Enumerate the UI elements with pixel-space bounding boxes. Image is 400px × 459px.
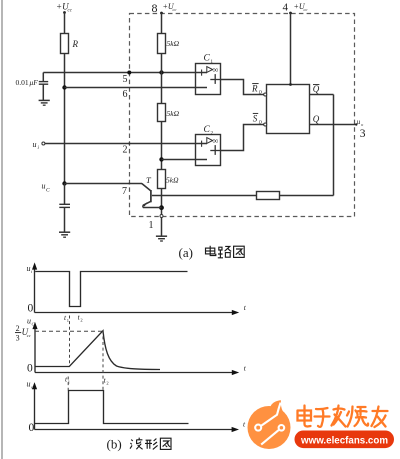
svg-text:(b): (b) [107, 437, 122, 452]
wire [64, 13, 66, 35]
svg-text:8: 8 [152, 1, 158, 15]
resistor R [61, 34, 69, 54]
collector lead [142, 184, 151, 192]
svg-text:0: 0 [28, 303, 34, 315]
node divider junction mid [159, 157, 163, 161]
wire base resistor to Qbar rail [280, 195, 334, 197]
comparator C2 [196, 135, 221, 166]
svg-text:5kΩ: 5kΩ [167, 39, 180, 48]
RD input bubble [264, 93, 267, 96]
svg-text:cc: cc [304, 7, 308, 12]
pin1 terminal on boundary [160, 215, 163, 218]
svg-text:2: 2 [16, 324, 20, 333]
wave1 ui trace [35, 272, 187, 307]
logo white cutouts [255, 403, 284, 445]
wire [161, 13, 163, 34]
svg-text:u: u [27, 380, 31, 389]
svg-text:C: C [204, 54, 211, 64]
svg-text:2: 2 [106, 380, 108, 385]
svg-text:μF: μF [30, 78, 39, 87]
友 [372, 407, 388, 428]
图 [234, 246, 245, 257]
ground (0.01uF) [39, 99, 50, 101]
wave1 x-axis [35, 312, 234, 314]
svg-text:2: 2 [80, 317, 82, 322]
svg-text:1: 1 [67, 318, 69, 323]
wave3 uo trace [35, 391, 189, 424]
node pin6 junction [62, 85, 66, 89]
路 [218, 247, 223, 258]
子 [315, 408, 330, 427]
svg-text:o: o [361, 122, 364, 127]
svg-text:t: t [244, 364, 247, 373]
wire [161, 122, 163, 170]
resistor 5k (1) [158, 34, 166, 54]
wire Q output to pin3 [310, 124, 357, 126]
wire [161, 54, 163, 104]
resistor 5k (2) [158, 104, 166, 122]
wire Qbar output [310, 94, 334, 96]
base bar [150, 190, 152, 202]
node pin5 on boundary [127, 71, 131, 75]
IC dashed boundary box [130, 14, 355, 217]
svg-text:∞: ∞ [213, 65, 219, 75]
C2 output wire to SD input [221, 125, 265, 151]
svg-text:Q: Q [313, 84, 320, 94]
svg-text:i: i [38, 146, 40, 151]
svg-text:R: R [72, 39, 79, 49]
wire pin2 trigger line [45, 143, 207, 145]
wire left rail [64, 54, 66, 184]
电 [210, 246, 216, 256]
dashed t2 between wave2 and wave3 [102, 331, 104, 391]
node supply terminal left [63, 11, 66, 14]
wave1 y-axis [34, 266, 36, 313]
emitter lead [143, 201, 151, 205]
C1 output wire to RD input [221, 80, 265, 95]
SD input bubble [264, 123, 267, 126]
svg-text:C: C [204, 125, 211, 135]
wave2 y-axis [34, 326, 36, 373]
svg-text:t: t [243, 420, 246, 429]
svg-text:3: 3 [360, 128, 366, 140]
flip-flop latch [267, 85, 310, 134]
wire Qbar vertical rail [333, 95, 335, 196]
svg-text:Q: Q [313, 114, 320, 124]
svg-text:0: 0 [27, 363, 33, 375]
svg-text:(a): (a) [179, 245, 193, 260]
wave3 x-axis [35, 429, 234, 431]
ground (timing cap) [59, 231, 70, 233]
dashed 2/3 level [35, 330, 103, 332]
svg-text:7: 7 [122, 186, 127, 197]
svg-text:cc: cc [173, 7, 177, 12]
ground (pin1) [156, 235, 167, 237]
图 [160, 438, 171, 449]
base wire [152, 195, 257, 197]
svg-text:cc: cc [27, 333, 31, 338]
caption glyphs 波形图 [130, 438, 171, 450]
comparator C1 [196, 64, 221, 95]
svg-text:2: 2 [123, 145, 128, 156]
wire pin5 control line [43, 72, 207, 74]
svg-text:S: S [253, 114, 258, 124]
base resistor [257, 192, 280, 200]
svg-text:u: u [27, 264, 31, 273]
形 [145, 440, 152, 449]
svg-text:R: R [251, 84, 258, 94]
dashed t1 between wave1 and wave2 [69, 316, 71, 367]
node divider junction top [159, 70, 163, 74]
svg-text:cc: cc [68, 9, 73, 14]
svg-text:3: 3 [16, 334, 20, 343]
svg-text:C: C [46, 188, 50, 194]
svg-text:5kΩ: 5kΩ [167, 109, 180, 118]
svg-text:u: u [27, 317, 31, 326]
svg-text:D: D [258, 90, 263, 95]
svg-text:1: 1 [149, 220, 154, 231]
波 [130, 440, 133, 449]
wire pin6 threshold line [65, 87, 208, 89]
svg-text:www.elecfans.com: www.elecfans.com [300, 435, 388, 447]
电 [298, 406, 312, 427]
watermark logo disc [248, 406, 291, 449]
svg-text:5kΩ: 5kΩ [166, 176, 179, 185]
capacitor C (timing) [64, 184, 66, 205]
pin3 terminal [355, 123, 357, 125]
resistor 5k (3) [158, 170, 166, 189]
wave1 y-arrow [32, 262, 37, 269]
node emitter junction [159, 205, 164, 210]
svg-text:4: 4 [283, 2, 289, 14]
发 [332, 406, 346, 427]
svg-text:0: 0 [29, 422, 35, 434]
wire pin7 discharge line [65, 183, 143, 185]
svg-text:D: D [258, 120, 263, 125]
svg-text:t: t [244, 303, 247, 312]
watermark text 电子发烧友 [298, 406, 388, 428]
pin7 boundary tick [128, 183, 130, 185]
wave3 y-axis [34, 386, 36, 430]
caption glyphs 电路图 [206, 246, 245, 258]
烧 [347, 407, 368, 427]
node uC junction [62, 181, 66, 185]
wave1 x-arrow [232, 310, 239, 315]
svg-text:6: 6 [123, 89, 128, 100]
logo leaf [270, 400, 286, 418]
watermark red banner www.elecfans.com [295, 431, 395, 449]
left page margin line [1, 0, 3, 459]
svg-text:u: u [33, 140, 37, 149]
dashed t1 above wave3 pulse [67, 377, 69, 391]
svg-text:u: u [42, 182, 46, 191]
wave2 uC trace [35, 331, 160, 370]
wave2 x-axis [35, 372, 233, 374]
svg-text:T: T [146, 175, 152, 185]
svg-text:0.01: 0.01 [16, 78, 29, 87]
wire to C2 inverting input [162, 159, 208, 161]
wire [161, 189, 163, 237]
svg-text:∞: ∞ [213, 136, 219, 146]
svg-text:5: 5 [123, 74, 128, 85]
